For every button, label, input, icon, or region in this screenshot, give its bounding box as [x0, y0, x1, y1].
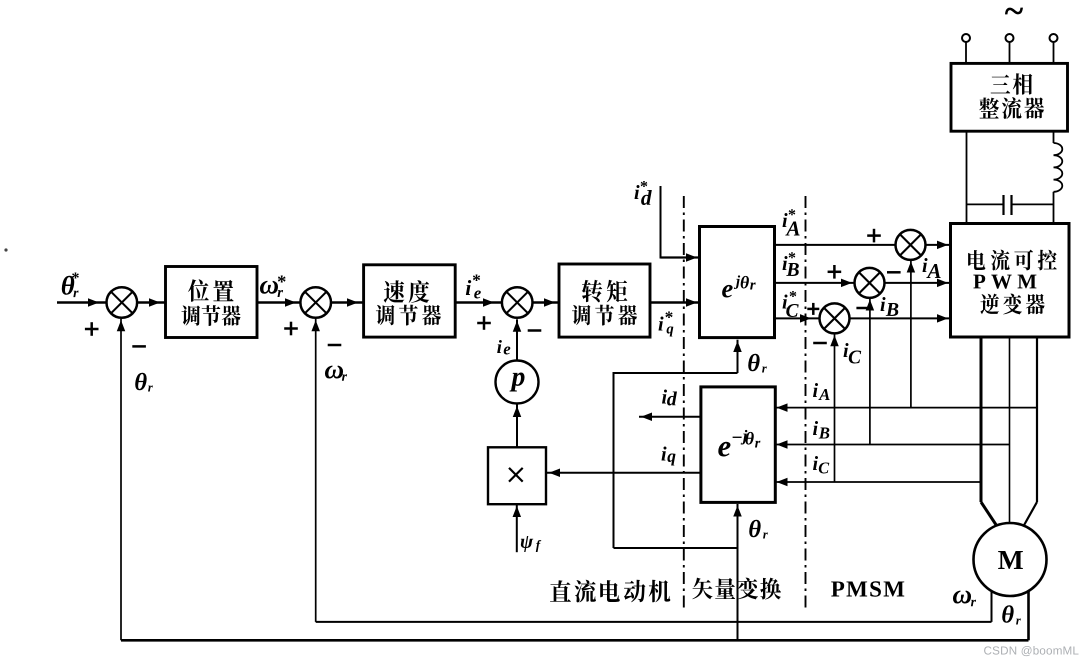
wire omega_r from motor	[991, 591, 993, 622]
wire i_B current tap	[775, 440, 1010, 449]
summing junction C	[820, 303, 850, 333]
wire junction 1 to position regulator	[137, 298, 165, 307]
label plus junction 2	[284, 322, 298, 336]
label omega_r feedback at junction 2	[325, 365, 347, 380]
wire i_B* line	[775, 279, 855, 288]
watermark	[984, 646, 1078, 656]
label i_A tap	[813, 383, 830, 400]
label minus junction A	[887, 271, 901, 274]
wire i_q output to multiplier	[546, 469, 701, 478]
label minus junction C	[813, 342, 827, 345]
wire theta_r* input	[57, 298, 107, 307]
label minus junction B	[856, 307, 870, 310]
wire i_A feedback riser	[907, 260, 916, 408]
motor phase wire A	[981, 337, 998, 527]
label i_C feedback at junction C	[844, 343, 862, 363]
label i_A* reference	[783, 209, 800, 235]
block p pole pairs	[496, 361, 539, 404]
label section DC motor	[550, 580, 670, 603]
wire theta_r routing loop	[614, 372, 738, 548]
wire junction 3 to torque regulator	[533, 298, 560, 307]
wire junction 2 to speed regulator	[331, 298, 364, 307]
AC terminal 2	[1006, 34, 1014, 63]
wire i_B feedback riser	[866, 298, 875, 445]
wire i_A current tap	[775, 403, 1038, 412]
AC terminal 3	[1050, 34, 1058, 63]
motor M	[974, 523, 1047, 596]
label i_q output	[662, 446, 676, 465]
summing junction 1	[107, 287, 138, 318]
DC link left wire	[966, 131, 968, 223]
wire i_C* line	[775, 314, 820, 323]
wire i_C current tap	[775, 478, 982, 487]
wire i_C feedback riser	[830, 334, 839, 482]
label omega_r* reference	[260, 276, 286, 297]
wire junction C to PWM inverter	[850, 314, 951, 323]
label plus junction C	[807, 303, 819, 315]
label i_B tap	[813, 421, 829, 439]
block current-controlled PWM inverter	[951, 224, 1070, 338]
wire multiplier to p block	[513, 405, 522, 448]
summing junction 2	[300, 287, 331, 318]
wire omega_r feedback bottom	[316, 621, 992, 623]
wire theta_r from motor	[1027, 591, 1030, 640]
boundary dash-dot line DC motor / vector transform	[683, 196, 685, 608]
label i_C tap	[813, 456, 829, 473]
block torque regulator	[559, 264, 650, 337]
label i_B feedback at junction B	[881, 297, 899, 316]
block ej-theta vector rotator	[700, 227, 775, 338]
label i_B* reference	[783, 252, 799, 276]
label minus junction 3	[528, 329, 542, 332]
wire position regulator to junction 2	[257, 298, 300, 307]
wire i_d output	[639, 412, 701, 421]
wire theta_r riser to e-minus-j-theta	[733, 504, 742, 640]
label section vector transform	[692, 578, 781, 600]
wire junction A to PWM inverter	[926, 241, 951, 250]
label i_q* reference	[659, 312, 674, 337]
wire psi_f input	[513, 504, 522, 552]
label theta_r at ej-theta	[748, 354, 767, 373]
label i_A feedback at junction A	[923, 258, 941, 278]
label theta_r* reference	[62, 272, 79, 297]
label omega_r at motor	[953, 590, 976, 606]
wire junction B to PWM inverter	[885, 279, 951, 288]
label i_C* reference	[783, 291, 799, 317]
DC link right wire with smoothing inductor	[1054, 131, 1063, 223]
summing junction 3	[502, 287, 533, 318]
wire speed regulator to junction 3	[455, 298, 502, 307]
label plus junction B	[828, 265, 842, 279]
motor phase wire B	[1009, 337, 1011, 523]
label i_e* reference	[466, 275, 481, 299]
wire i_A* line	[775, 244, 896, 246]
block three-phase rectifier	[951, 63, 1068, 131]
boundary dash-dot line vector transform / PMSM	[805, 196, 807, 608]
label plus junction 3	[477, 316, 491, 330]
summing junction B	[855, 268, 885, 298]
label minus junction 2	[328, 344, 342, 347]
label psi_f flux	[521, 536, 541, 552]
motor phase wire C	[1023, 337, 1037, 527]
label plus junction 1	[85, 322, 99, 336]
DC link capacitor	[967, 195, 1054, 215]
wire theta_r riser to junction 1	[117, 319, 126, 641]
label i_d* reference	[635, 181, 652, 205]
label minus junction 1	[132, 345, 146, 348]
label theta_r feedback at junction 1	[135, 373, 153, 392]
wire torque regulator to ej-theta block	[650, 298, 700, 307]
label AC source tilde	[1005, 8, 1023, 15]
AC terminal 1	[962, 34, 970, 63]
label i_d output	[662, 389, 677, 405]
summing junction A	[896, 230, 926, 260]
wire p block to junction 3	[513, 319, 522, 360]
label i_e feedback	[497, 340, 510, 354]
block e-minus-j-theta vector transform	[701, 387, 775, 503]
wire theta_r into ej-theta block	[733, 340, 742, 373]
block position regulator	[166, 267, 258, 338]
wire i_d* input	[661, 186, 700, 262]
wire theta_r feedback bottom	[121, 639, 1029, 642]
label plus junction A	[867, 229, 881, 243]
stray dot	[4, 248, 7, 251]
block speed regulator	[364, 265, 456, 337]
wire omega_r riser to junction 2	[311, 319, 320, 622]
label section PMSM	[831, 581, 904, 596]
label theta_r at e-minus-j-theta	[749, 520, 768, 539]
label theta_r at motor	[1002, 605, 1021, 624]
block multiplier	[488, 447, 546, 504]
